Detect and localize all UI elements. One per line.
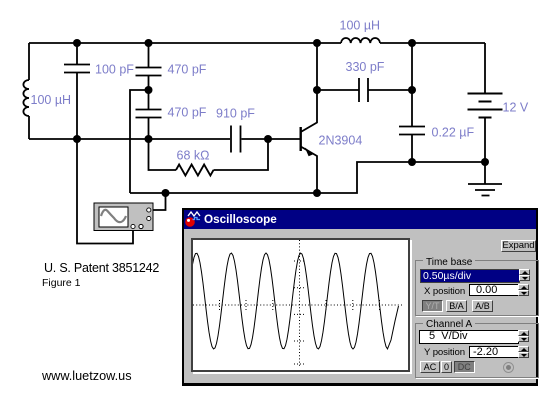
node G 910pF-base xyxy=(264,135,272,143)
svg-text:100 µH: 100 µH xyxy=(31,93,72,107)
transistor Q1 2N3904 base bar xyxy=(300,127,302,151)
node M battery-ground xyxy=(481,158,489,166)
wire 100pF branch top xyxy=(76,43,78,64)
wire 330pF right xyxy=(369,89,413,91)
wire base lead xyxy=(268,138,300,140)
node L 0.22uF-ground rail xyxy=(408,158,416,166)
wire left vertical bottom xyxy=(28,116,30,139)
oscilloscope icon terminal 1 xyxy=(147,208,151,212)
node C top-collector xyxy=(313,39,321,47)
node H collector-330pF xyxy=(313,86,321,94)
wire left vertical top xyxy=(28,43,30,80)
inductor L2 100uH (top) xyxy=(341,38,380,43)
oscilloscope icon trace xyxy=(101,210,126,222)
capacitor C4 330pF xyxy=(359,78,368,102)
svg-text:330 pF: 330 pF xyxy=(346,60,385,74)
oscilloscope icon terminal 4 xyxy=(139,224,143,228)
capacitor C1 100pF xyxy=(64,65,90,73)
svg-text:12 V: 12 V xyxy=(503,101,529,115)
ground symbol xyxy=(468,162,502,196)
node N divider tap junction xyxy=(145,86,153,94)
wire 330pF left xyxy=(317,89,359,91)
wire 0.22uF branch top xyxy=(411,43,413,126)
oscilloscope icon terminal 3 xyxy=(131,224,135,228)
resistor R1 68k zigzag xyxy=(176,165,214,176)
node E rail-100pF xyxy=(73,135,81,143)
wire 470pF stack top xyxy=(148,43,150,67)
inductor L1 100uH (left) xyxy=(23,80,29,116)
capacitor C6 0.22uF xyxy=(399,127,425,135)
wire 910pF to node xyxy=(242,138,269,140)
oscilloscope icon screen xyxy=(99,207,128,227)
battery V1 12V plates xyxy=(468,94,503,118)
capacitor C3 470pF xyxy=(136,110,162,118)
node F rail-470pF xyxy=(145,135,153,143)
capacitor C2 470pF xyxy=(136,68,162,76)
scope graticule ticks xyxy=(220,261,380,364)
wire bottom rail xyxy=(29,138,230,140)
wire top rail right xyxy=(380,42,485,44)
oscilloscope icon XSC1 body xyxy=(94,203,153,231)
wire 100pF branch down to scope ground xyxy=(77,73,133,244)
oscilloscope icon terminal 2 xyxy=(147,216,151,220)
svg-text:100 µH: 100 µH xyxy=(340,19,381,33)
wire between 470pF caps xyxy=(148,76,150,109)
Expand button xyxy=(501,240,536,252)
svg-text:470 pF: 470 pF xyxy=(168,63,207,77)
svg-text:470 pF: 470 pF xyxy=(168,106,207,120)
svg-text:910 pF: 910 pF xyxy=(216,107,255,121)
scope graticule horizontal axis xyxy=(193,240,404,366)
node J scope tap xyxy=(162,189,170,197)
wire divider tap to emitter rail xyxy=(130,90,149,193)
transistor Q1 emitter arrow xyxy=(305,148,314,157)
svg-text:2N3904: 2N3904 xyxy=(319,134,363,148)
scope waveform channel A xyxy=(193,253,399,349)
node B top-470pF xyxy=(145,39,153,47)
node K emitter rail xyxy=(313,189,321,197)
node D top-0.22uF xyxy=(408,39,416,47)
Channel A group xyxy=(415,323,539,378)
wire top rail left xyxy=(29,42,341,44)
Time base group xyxy=(415,260,539,316)
resistor R1 68k leads xyxy=(149,139,269,170)
svg-text:100 pF: 100 pF xyxy=(95,63,134,77)
node I 330pF-0.22uF xyxy=(408,86,416,94)
svg-text:68 kΩ: 68 kΩ xyxy=(177,149,210,163)
capacitor C5 910pF xyxy=(231,126,241,153)
wire scope probe to emitter rail xyxy=(151,193,166,210)
transistor Q1 emitter xyxy=(301,147,317,194)
wire battery top lead xyxy=(484,43,486,94)
wire 470pF stack bottom xyxy=(148,118,150,139)
svg-text:0.22 µF: 0.22 µF xyxy=(432,126,475,140)
wire 0.22uF branch bottom xyxy=(411,135,413,162)
wire emitter rail xyxy=(130,162,485,193)
wire battery bottom lead xyxy=(484,118,486,163)
node A top-100pF xyxy=(73,39,81,47)
transistor Q1 collector xyxy=(301,43,317,132)
